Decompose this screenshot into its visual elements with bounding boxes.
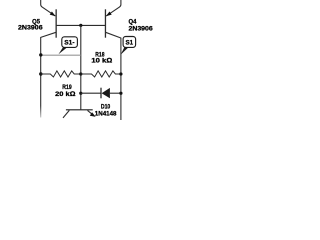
transistor Q5 emitter arrow <box>50 12 56 17</box>
junction left rail / R19 <box>39 72 42 75</box>
svg-text:20 kΩ: 20 kΩ <box>55 91 75 98</box>
transistor Q4 base bar <box>105 9 106 37</box>
transistor Q4 collector wire <box>106 32 121 38</box>
junction S1- wire / left rail <box>39 53 42 56</box>
svg-text:1N4148: 1N4148 <box>95 111 117 118</box>
wire diode right <box>110 92 121 94</box>
svg-text:S1: S1 <box>126 39 134 46</box>
resistor R19 <box>41 71 81 77</box>
wire right rail (Q4 collector down) <box>120 38 122 120</box>
svg-text:2N3906: 2N3906 <box>18 25 43 32</box>
callout S1- box <box>59 37 78 55</box>
junction base node <box>79 24 82 27</box>
diode D10 triangle <box>102 88 110 98</box>
junction center node R19/R18 <box>79 72 82 75</box>
wire base Q5-Q4 <box>56 24 106 26</box>
resistor R18 <box>81 71 121 77</box>
wire left rail (Q5 collector down) <box>40 37 42 118</box>
wire diode left <box>81 92 101 94</box>
transistor Q6 collector wire <box>63 110 69 118</box>
svg-text:10 kΩ: 10 kΩ <box>91 58 112 65</box>
wire center vertical (base node down to Q6 base) <box>80 25 82 109</box>
transistor Q6 emitter arrow <box>90 112 96 117</box>
transistor Q4 emitter wire <box>106 0 121 16</box>
transistor Q6 emitter wire <box>88 110 95 116</box>
svg-text:S1-: S1- <box>64 39 74 46</box>
transistor Q6 base bar <box>66 109 93 110</box>
wire switch S1- (gray) <box>41 54 81 56</box>
junction right rail / R18 <box>119 72 122 75</box>
transistor Q5 collector wire <box>41 32 56 37</box>
junction diode wire / center vertical <box>79 92 82 95</box>
diode D10 cathode bar <box>100 88 101 99</box>
transistor Q5 emitter wire <box>41 0 56 16</box>
svg-text:2N3906: 2N3906 <box>129 25 153 32</box>
callout S1 box <box>121 37 136 55</box>
transistor Q5 base bar <box>56 9 57 37</box>
transistor Q4 emitter arrow <box>106 12 112 17</box>
junction diode wire / right rail <box>119 92 122 95</box>
